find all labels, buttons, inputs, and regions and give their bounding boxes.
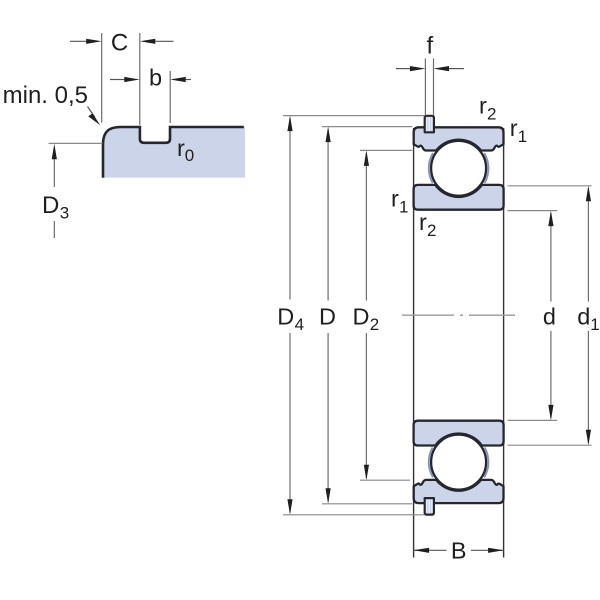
- svg-text:d: d: [577, 304, 590, 330]
- svg-text:min. 0,5: min. 0,5: [3, 82, 88, 109]
- svg-text:2: 2: [427, 221, 436, 240]
- svg-text:B: B: [451, 538, 467, 564]
- svg-text:0: 0: [185, 146, 194, 165]
- svg-text:D: D: [319, 304, 336, 330]
- svg-text:1: 1: [399, 198, 408, 217]
- svg-text:r: r: [177, 135, 185, 161]
- svg-text:D: D: [353, 304, 370, 330]
- svg-text:C: C: [111, 30, 128, 57]
- svg-text:r: r: [510, 115, 518, 141]
- svg-text:r: r: [419, 209, 427, 235]
- svg-text:f: f: [426, 33, 433, 60]
- svg-text:2: 2: [370, 315, 379, 334]
- svg-text:r: r: [391, 186, 399, 212]
- svg-text:1: 1: [518, 127, 527, 146]
- svg-text:r: r: [479, 93, 487, 119]
- svg-text:D: D: [277, 304, 294, 330]
- svg-text:D: D: [42, 192, 59, 219]
- svg-text:4: 4: [295, 315, 304, 334]
- svg-text:3: 3: [60, 204, 69, 223]
- svg-text:b: b: [149, 65, 162, 91]
- svg-text:2: 2: [487, 105, 496, 124]
- svg-text:d: d: [543, 304, 556, 330]
- svg-text:1: 1: [590, 315, 599, 334]
